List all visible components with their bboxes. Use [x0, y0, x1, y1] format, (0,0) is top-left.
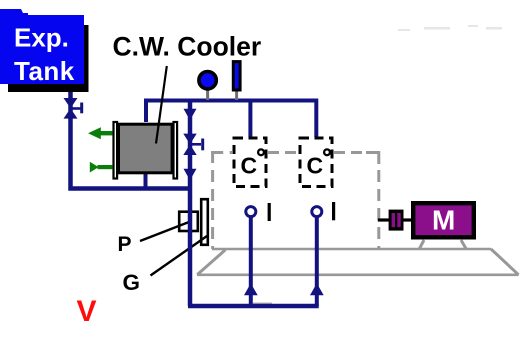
- svg-text:M: M: [432, 204, 455, 235]
- pipe: tank line down and across to pump tee: [71, 100, 191, 189]
- svg-text:Exp.: Exp.: [14, 23, 69, 53]
- riser 2 up arrow: [310, 283, 324, 295]
- cooler right flange: [174, 122, 178, 179]
- cooler body: [119, 124, 173, 173]
- bottom manifold: [188, 304, 319, 309]
- cooler label pointer line: [156, 66, 167, 144]
- cylinder 2 drain circle: [312, 207, 322, 217]
- svg-text:V: V: [77, 295, 97, 328]
- motor leg left: [419, 240, 424, 250]
- cylinder 2 degree mark: [324, 149, 330, 155]
- flow arrow down (upper): [184, 109, 197, 121]
- thermometer stem: [235, 91, 238, 100]
- green outlet arrow (points left): [88, 127, 113, 139]
- pump casing G: [201, 199, 208, 245]
- engine outline right edge: [377, 170, 380, 249]
- base right slant: [491, 249, 519, 275]
- coupling: [389, 210, 404, 231]
- cylinder 1 degree mark: [258, 149, 264, 155]
- pressure gauge: [199, 72, 216, 89]
- riser 1 up arrow: [244, 283, 258, 295]
- stray gray mark under base: [253, 303, 272, 305]
- base top edge: [212, 248, 491, 251]
- top manifold with elbows: [146, 101, 316, 138]
- expansion tank shadow: [8, 25, 89, 92]
- svg-text:C: C: [307, 153, 324, 179]
- pressure gauge stem: [206, 89, 209, 100]
- valve V1 below tank: [64, 98, 84, 119]
- svg-text:C.W. Cooler: C.W. Cooler: [113, 32, 262, 62]
- shaft engine side: [378, 218, 389, 221]
- expansion tank tab: [0, 9, 28, 16]
- pipe: tank down to valve: [68, 92, 73, 100]
- flow arrow down (lower): [184, 169, 197, 181]
- G pointer line: [151, 236, 208, 276]
- pipe: cooler bottom to lower run: [144, 172, 148, 190]
- expansion tank body: [0, 15, 84, 84]
- motor M: [413, 203, 474, 237]
- cooler left flange: [114, 122, 118, 179]
- tick mark 1: [268, 203, 271, 221]
- cylinder 1 drain circle: [246, 207, 256, 217]
- pipe: manifold branch down through pump to bottom run: [188, 101, 193, 307]
- riser to cylinder 2: [315, 217, 319, 306]
- motor leg right: [461, 240, 467, 250]
- thermometer: [233, 62, 240, 90]
- svg-text:Tank: Tank: [14, 56, 75, 86]
- shaft motor side: [403, 218, 412, 221]
- svg-text:C: C: [241, 153, 258, 179]
- svg-text:P: P: [118, 233, 132, 256]
- tee down to cylinder 1: [248, 101, 252, 138]
- green inlet arrow (points right): [90, 162, 113, 173]
- cylinder 2 dashed box: [300, 138, 332, 187]
- faint scan artifacts top right: [398, 25, 502, 31]
- riser to cylinder 1: [249, 217, 253, 306]
- cylinder 1 dashed box: [234, 138, 266, 187]
- valve V2: [183, 134, 204, 155]
- base left slant: [197, 250, 225, 275]
- P pointer line: [140, 222, 189, 241]
- engine outline top edge (gray dashed): [211, 153, 379, 165]
- base bottom edge: [197, 273, 519, 276]
- tick mark 2: [332, 202, 335, 220]
- svg-text:G: G: [123, 270, 141, 295]
- pump body P: [179, 212, 198, 231]
- engine outline left edge: [211, 151, 214, 249]
